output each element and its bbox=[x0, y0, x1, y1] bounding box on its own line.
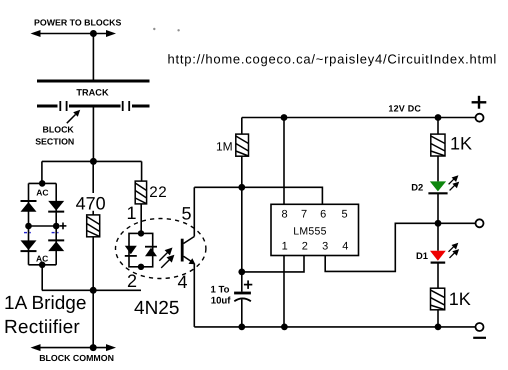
wire common down to block common bbox=[92, 290, 94, 347]
opto transistor emitter bbox=[184, 256, 193, 262]
wire 470 bottom to common bbox=[92, 237, 94, 290]
IC U1 LM555 box bbox=[271, 204, 359, 255]
opto LED left (down) bbox=[125, 246, 137, 256]
svg-text:470: 470 bbox=[76, 194, 106, 214]
wire branch to 22 resistor bbox=[141, 161, 143, 181]
D1 light arrow 2 bbox=[450, 249, 460, 258]
LED D2 (green) bbox=[430, 181, 446, 191]
label cap + bbox=[244, 280, 252, 289]
svg-text:1K: 1K bbox=[449, 289, 471, 309]
wire junction to mid terminal bbox=[438, 222, 476, 224]
arrowhead left (power line) bbox=[31, 30, 41, 37]
wire branch horizontal bbox=[42, 160, 142, 162]
svg-text:AC: AC bbox=[36, 188, 48, 198]
node bridge AC top bbox=[39, 180, 46, 187]
D2 light arrow 1 bbox=[449, 175, 459, 184]
block section pointer arrow bbox=[67, 115, 76, 124]
track rail 2 segment middle bbox=[69, 105, 121, 108]
terminal circle bottom bbox=[476, 323, 484, 331]
wire branch to bridge top bbox=[41, 161, 43, 183]
node opto pin1 dot bbox=[138, 230, 144, 236]
junction dot on power line bbox=[90, 30, 97, 37]
wire top rail 12V bbox=[242, 117, 475, 119]
svg-text:1: 1 bbox=[126, 203, 136, 223]
diode bridge bottom-right bbox=[48, 240, 64, 251]
node ground cap bbox=[238, 324, 245, 331]
terminal circle middle bbox=[476, 219, 484, 227]
opto 4N25 dashed ellipse bbox=[116, 219, 206, 279]
svg-text:1 To: 1 To bbox=[210, 285, 229, 296]
gap bar 3 bbox=[122, 101, 124, 111]
svg-text:6: 6 bbox=[320, 209, 326, 221]
opto LED box bbox=[129, 233, 153, 266]
node 1M-pin6-collector junction bbox=[238, 184, 245, 191]
svg-text:LM555: LM555 bbox=[293, 225, 327, 237]
wire rail to 1K top bbox=[437, 118, 439, 135]
LED D1 (red) bbox=[430, 251, 446, 261]
svg-text:1K: 1K bbox=[450, 134, 472, 154]
bridge rectifier outline bbox=[29, 183, 57, 264]
svg-text:5: 5 bbox=[341, 209, 347, 221]
terminal - symbol bbox=[473, 337, 486, 339]
node bridge AC bottom bbox=[39, 262, 46, 269]
wire 22 to opto pin1 bbox=[140, 204, 142, 234]
node bridge mid right (+) bbox=[53, 223, 60, 230]
track rail 2 segment right bbox=[132, 105, 150, 108]
capacitor C1 plate top bbox=[234, 292, 251, 295]
wire 1K bottom to ground bbox=[437, 310, 439, 327]
wire D2 to mid terminal bbox=[437, 193, 439, 251]
opto LED right (up) bbox=[145, 247, 157, 257]
wire rail down to pin8 bbox=[283, 118, 285, 205]
wire power feed double-arrow line bbox=[37, 33, 110, 35]
wire bottom horizontal common bbox=[42, 289, 141, 291]
svg-text:http://home.cogeco.ca/~rpaisle: http://home.cogeco.ca/~rpaisley4/Circuit… bbox=[168, 52, 498, 67]
svg-text:SECTION: SECTION bbox=[35, 137, 74, 147]
wire cap column down bbox=[241, 187, 243, 291]
svg-text:D1: D1 bbox=[416, 250, 428, 261]
diode bridge top-left bbox=[21, 201, 37, 212]
svg-text:4N25: 4N25 bbox=[134, 298, 179, 319]
wire collector up bbox=[193, 187, 195, 236]
wire track to branch node bbox=[92, 106, 94, 161]
svg-text:4: 4 bbox=[177, 272, 187, 292]
resistor R 1K top bbox=[431, 134, 445, 156]
blue artifact marks bbox=[24, 232, 59, 234]
node common junction bbox=[90, 287, 97, 294]
svg-text:3: 3 bbox=[322, 241, 328, 253]
svg-text:D2: D2 bbox=[411, 181, 423, 192]
wire branch to 470 text gap bbox=[92, 161, 94, 193]
node bridge mid left bbox=[25, 223, 32, 230]
wire block common double-arrow line bbox=[37, 347, 110, 349]
opto light arrow 2 bbox=[161, 255, 174, 268]
node branch junction bbox=[90, 158, 97, 165]
terminal circle top bbox=[476, 114, 484, 122]
wire rail to 1M bbox=[241, 118, 243, 135]
gap bar 2 bbox=[66, 101, 68, 111]
wire D1 to 1K bottom bbox=[437, 263, 439, 289]
resistor R 22 bbox=[135, 181, 146, 204]
diode bridge top-right bbox=[48, 201, 64, 212]
D2 light arrow 2 bbox=[450, 182, 460, 191]
node LED junction bbox=[435, 220, 442, 227]
capacitor C1 plate bottom (curved) bbox=[234, 298, 251, 301]
node block common dot bbox=[90, 344, 97, 351]
wire pin2 to cap bbox=[242, 256, 304, 272]
svg-text:4: 4 bbox=[342, 241, 348, 253]
svg-text:Rectiifier: Rectiifier bbox=[4, 317, 80, 338]
svg-text:POWER TO BLOCKS: POWER TO BLOCKS bbox=[34, 18, 121, 28]
wire emitter down bbox=[193, 264, 195, 327]
track rail 1 (solid) bbox=[37, 80, 150, 83]
svg-text:22: 22 bbox=[149, 184, 167, 201]
wire pin1 to ground bbox=[283, 256, 285, 327]
svg-text:2: 2 bbox=[302, 241, 308, 253]
opto transistor base bar bbox=[181, 239, 184, 262]
wire pin3 to LED junction bbox=[325, 223, 438, 271]
node ground 1K bbox=[435, 324, 442, 331]
terminal + symbol bbox=[472, 96, 487, 109]
svg-text:12V DC: 12V DC bbox=[388, 103, 421, 113]
gap bar 1 bbox=[59, 101, 61, 111]
svg-text:1: 1 bbox=[282, 241, 288, 253]
opto transistor collector bbox=[184, 237, 195, 244]
wire collector junction horizontal to pin6 bbox=[194, 187, 322, 204]
svg-text:AC: AC bbox=[36, 254, 48, 264]
svg-text:BLOCK COMMON: BLOCK COMMON bbox=[39, 353, 114, 363]
track rail 2 segment left bbox=[37, 105, 58, 108]
svg-text:TRACK: TRACK bbox=[76, 88, 109, 98]
svg-text:10uf: 10uf bbox=[211, 295, 232, 306]
node rail to 555 pin8 bbox=[281, 114, 288, 121]
wire 1M to junction bbox=[241, 156, 243, 187]
svg-text:2: 2 bbox=[127, 271, 137, 291]
wire bridge bottom down bbox=[41, 265, 43, 291]
wire ground rail bbox=[194, 326, 475, 328]
svg-text:5: 5 bbox=[181, 203, 191, 223]
svg-text:1M: 1M bbox=[216, 139, 233, 153]
svg-text:8: 8 bbox=[282, 209, 288, 221]
diode bridge bottom-left bbox=[21, 240, 37, 251]
resistor R 1K bottom bbox=[431, 288, 445, 310]
node cap top junction bbox=[238, 269, 245, 276]
resistor R 1M bbox=[236, 134, 249, 156]
svg-text:1A Bridge: 1A Bridge bbox=[4, 293, 86, 314]
gap bar 4 bbox=[128, 101, 130, 111]
wire cap to ground bbox=[241, 300, 243, 327]
arrowhead right (power line) bbox=[106, 30, 116, 37]
label + bridge output bbox=[60, 223, 67, 230]
wire 470 text to resistor stub bbox=[92, 211, 94, 215]
node rail to 1K bbox=[435, 114, 442, 121]
node ground pin1 bbox=[281, 324, 288, 331]
artifact gray dots bbox=[153, 28, 155, 30]
wire power line to track bbox=[92, 34, 94, 81]
svg-text:7: 7 bbox=[301, 209, 307, 221]
opto light arrow 1 bbox=[159, 248, 172, 261]
wire 1K to D2 bbox=[437, 156, 439, 181]
svg-text:BLOCK: BLOCK bbox=[43, 125, 75, 135]
node opto pin2 dot bbox=[138, 264, 144, 270]
D1 light arrow 1 bbox=[449, 243, 459, 252]
resistor R 470 bbox=[87, 215, 100, 237]
